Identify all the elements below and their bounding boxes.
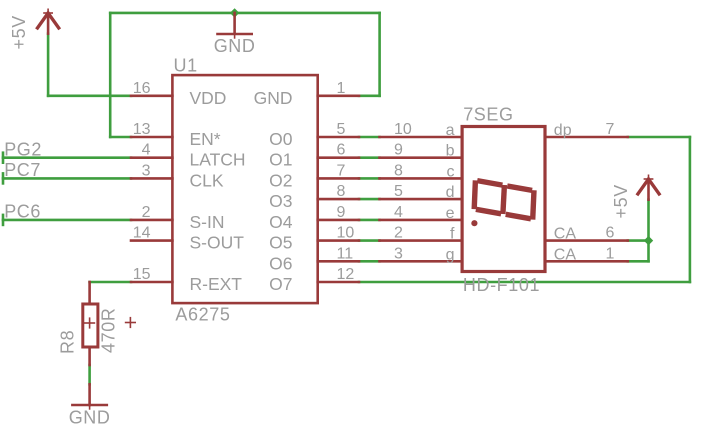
+5V left origin cross [43,12,53,14]
svg-text:EN*: EN* [190,129,221,149]
svg-text:+5V: +5V [611,184,631,218]
svg-text:15: 15 [133,266,151,283]
svg-text:GND: GND [254,88,293,108]
svg-text:9: 9 [394,142,403,159]
svg-text:3: 3 [142,162,151,179]
U1 pin 1 (GND) stub [318,95,359,98]
svg-text:VDD: VDD [190,88,227,108]
wire net GND: EN* horizontal to pin13 [110,136,131,139]
wire net GND: EN* vertical riser [109,13,112,137]
7SEG pin 9 (b) stub [380,156,463,159]
svg-text:11: 11 [337,245,354,262]
svg-text:CLK: CLK [190,170,224,190]
U1 pin 4 (LATCH) stub [131,156,172,159]
U1 pin 7 (O2) stub [318,177,359,180]
svg-text:2: 2 [142,204,151,221]
svg-text:O1: O1 [269,150,292,170]
wire net GND: top horizontal [110,12,379,15]
U1 pin 11 (O6) stub [318,260,359,263]
svg-text:PC7: PC7 [4,160,41,180]
svg-text:b: b [446,143,455,160]
7SEG pin 1 (CA) stub [545,260,628,263]
wire net +5V right: CA pin1 horizontal [628,260,649,263]
wire net: resistor bottom to GND [88,365,91,384]
svg-text:6: 6 [606,225,615,242]
value-text origin cross [125,322,136,324]
wire net O7-dp: dp horizontal [628,136,690,139]
svg-text:CA: CA [554,226,577,243]
svg-text:S-IN: S-IN [190,212,225,232]
svg-text:6: 6 [337,142,346,159]
svg-text:4: 4 [142,142,151,159]
net PC7 dangling-end tick [2,173,5,183]
svg-text:PC6: PC6 [4,202,41,222]
svg-text:O2: O2 [269,170,292,190]
junction on GND net at top [230,8,239,17]
svg-text:a: a [446,122,455,139]
svg-text:14: 14 [133,225,151,242]
wire net O1-b [359,156,380,159]
wire net GND: pin1 horizontal [359,95,380,98]
svg-text:13: 13 [133,121,151,138]
svg-text:O6: O6 [269,253,292,273]
svg-text:e: e [446,205,455,222]
resistor R8 bottom pin [88,347,91,365]
wire net GND: pin1 vertical drop [378,13,381,96]
U1 pin 8 (O3) stub [318,198,359,201]
wire net O7-dp: horizontal bottom [359,281,690,284]
wire net +5V right: vertical to supply arrow [647,200,650,241]
svg-text:8: 8 [394,162,403,179]
U1 pin 9 (O4) stub [318,219,359,222]
7SEG pin 10 (a) stub [380,136,463,139]
wire net +5V left: vertical [47,34,50,96]
svg-text:10: 10 [394,121,412,138]
7SEG decimal point [471,220,477,226]
svg-text:1: 1 [337,80,346,97]
ground symbol top: pin [233,13,236,34]
U1 pin 12 (O7) stub [318,281,359,284]
svg-text:4: 4 [394,204,403,221]
ground symbol bottom: bar [72,404,106,407]
svg-text:c: c [447,163,455,180]
wire net +5V right: vertical between CA pins [647,241,650,262]
U1 pin 3 (CLK) stub [131,177,172,180]
wire net O4-e [359,219,380,222]
ground symbol top: bar [218,33,252,36]
svg-text:CA: CA [554,246,577,263]
wire net O2-c [359,177,380,180]
svg-text:5: 5 [394,183,403,200]
svg-text:O5: O5 [269,233,292,253]
svg-text:O7: O7 [269,274,292,294]
net PC6 dangling-end tick [2,215,5,225]
7SEG pin 8 (c) stub [380,177,463,180]
svg-text:R8: R8 [58,330,78,354]
display U2 7SEG body [462,127,545,272]
svg-text:2: 2 [394,225,403,242]
svg-text:7SEG: 7SEG [463,105,513,125]
U1 pin 16 (VDD) stub [131,95,172,98]
svg-text:S-OUT: S-OUT [190,233,245,253]
wire net O5-f [359,239,380,242]
svg-text:A6275: A6275 [175,304,230,324]
svg-text:7: 7 [606,121,615,138]
junction on +5V net at CA pin6 [644,236,653,245]
svg-text:9: 9 [337,204,346,221]
wire net O7-dp: right vertical [689,137,692,282]
resistor R8 top pin [88,282,91,304]
+5V supply symbol right: arrow chevron [637,179,660,195]
svg-text:+5V: +5V [9,15,29,49]
wire net +5V right: CA pin6 horizontal [628,239,649,242]
U1 pin 5 (O0) stub [318,136,359,139]
U1 pin 14 (S-OUT) stub [131,239,172,242]
svg-text:f: f [450,226,455,243]
U1 pin 13 (EN*) stub [131,136,172,139]
resistor R8 body [83,304,98,347]
+5V left pin shaft [47,13,50,34]
wire net O6-g [359,260,380,263]
7SEG pin 5 (d) stub [380,198,463,201]
svg-text:470R: 470R [99,308,119,353]
svg-text:O0: O0 [269,129,293,149]
7SEG pin 3 (g) stub [380,260,463,263]
svg-text:O3: O3 [269,191,292,211]
ground bottom origin tick [89,405,91,410]
svg-text:dp: dp [554,122,572,139]
svg-text:16: 16 [133,80,151,97]
ground symbol bottom: pin [88,384,91,405]
+5V supply symbol left: arrow chevron [37,13,60,29]
U1 pin 6 (O1) stub [318,156,359,159]
svg-text:LATCH: LATCH [190,150,246,170]
svg-text:R-EXT: R-EXT [190,274,243,294]
wire net R-EXT: horizontal from pin15 [90,281,131,284]
U1 pin 2 (S-IN) stub [131,219,172,222]
op-amp/IC U1 A6275 body [172,75,317,303]
+5V right pin shaft [647,179,650,200]
wire net O3-d [359,198,380,201]
svg-text:7: 7 [337,162,346,179]
resistor R8 origin cross [84,322,95,324]
wire net PG2 [3,156,131,159]
ground top origin tick [234,34,236,39]
svg-text:8: 8 [337,183,346,200]
7SEG pin 4 (e) stub [380,219,463,222]
svg-text:O4: O4 [269,212,293,232]
7SEG pin 6 (CA) stub [545,239,628,242]
svg-text:1: 1 [606,245,615,262]
wire net PC6 [3,219,131,222]
svg-text:5: 5 [337,121,346,138]
svg-text:GND: GND [214,36,256,56]
svg-text:GND: GND [69,407,111,427]
U1 pin 15 (R-EXT) stub [131,281,172,284]
svg-text:HD-F101: HD-F101 [463,275,540,295]
svg-text:U1: U1 [174,56,198,76]
svg-text:PG2: PG2 [4,140,42,160]
wire net +5V left: horizontal to VDD pin16 [48,95,131,98]
svg-text:10: 10 [337,225,355,242]
7SEG pin 2 (f) stub [380,239,463,242]
7SEG digit-8 glyph: 7 segments [474,180,475,209]
7SEG pin 7 (dp) stub [545,136,628,139]
net PG2 dangling-end tick [2,153,5,163]
+5V right origin cross [644,178,654,180]
wire net PC7 [3,177,131,180]
svg-text:3: 3 [394,245,403,262]
svg-text:d: d [446,184,455,201]
wire net O0-a [359,136,380,139]
U1 pin 10 (O5) stub [318,239,359,242]
svg-text:g: g [446,246,455,263]
svg-text:12: 12 [337,266,355,283]
